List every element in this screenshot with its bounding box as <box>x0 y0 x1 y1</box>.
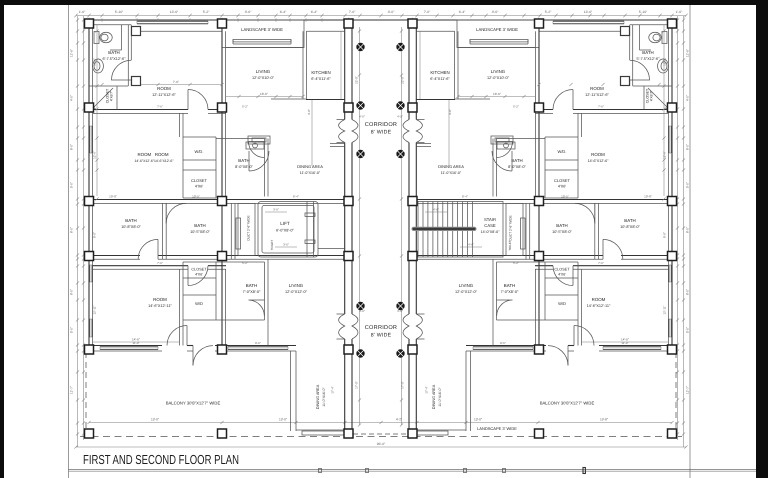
svg-text:12'-11": 12'-11" <box>93 305 97 314</box>
dining box dim rotated left <box>331 386 335 393</box>
svg-text:CLOSET: CLOSET <box>191 178 208 183</box>
svg-text:STAIR: STAIR <box>484 217 496 222</box>
svg-text:6'-4": 6'-4" <box>462 195 468 199</box>
svg-text:6'-4": 6'-4" <box>280 10 287 14</box>
svg-text:6'-4": 6'-4" <box>293 195 299 199</box>
svg-text:4'-6": 4'-6" <box>468 243 474 247</box>
room top-left label <box>152 86 176 97</box>
bath8 upper-right vanity <box>497 142 515 149</box>
svg-text:17'-4": 17'-4" <box>425 386 429 393</box>
svg-text:CLOSET: CLOSET <box>554 178 571 183</box>
corridor inner dim line left <box>359 27 361 425</box>
svg-text:10'-8"X8'-0": 10'-8"X8'-0" <box>620 225 640 229</box>
window top-left room <box>137 21 208 23</box>
sink top-right bath <box>658 59 669 73</box>
svg-text:18'-6": 18'-6" <box>493 92 501 96</box>
svg-text:5'-2": 5'-2" <box>242 105 248 109</box>
svg-text:8'-0": 8'-0" <box>93 232 97 238</box>
svg-text:8'-0": 8'-0" <box>663 232 667 238</box>
window left wall lower room a <box>90 265 92 282</box>
window bottom right living <box>473 347 533 350</box>
corridor bottom dashed <box>353 433 408 435</box>
svg-text:7'-0": 7'-0" <box>349 10 356 14</box>
living lower-left label <box>285 283 308 294</box>
svg-text:5'-0": 5'-0" <box>70 327 74 333</box>
svg-text:W/D.: W/D. <box>558 149 567 154</box>
wd closet stack lower-left box <box>183 262 216 320</box>
svg-text:5'-0": 5'-0" <box>686 182 690 188</box>
svg-text:LIVING: LIVING <box>491 69 506 74</box>
bath top-left bottom wall <box>89 85 128 87</box>
svg-text:BATH: BATH <box>194 223 205 228</box>
closet lower-right label <box>554 268 570 277</box>
svg-text:13'-0": 13'-0" <box>474 417 482 421</box>
svg-text:3'-0": 3'-0" <box>283 243 289 247</box>
room side dim text right <box>663 232 667 315</box>
sheet divider tick 2 <box>366 469 369 473</box>
svg-text:14'-6"X12'-11": 14'-6"X12'-11" <box>587 304 611 308</box>
window right wall lower room a <box>669 265 671 282</box>
corridor dim ticks <box>358 29 403 426</box>
svg-text:12'-0"X12'-0": 12'-0"X12'-0" <box>455 290 478 294</box>
svg-text:13'-6": 13'-6" <box>584 10 593 14</box>
room interior dim ticks top-left <box>100 83 223 86</box>
svg-text:11'-0": 11'-0" <box>621 341 628 345</box>
left dimension line outer <box>77 16 79 447</box>
balcony small dim text right <box>500 341 628 345</box>
svg-text:12'-7": 12'-7" <box>70 386 74 394</box>
room2 label upper-right <box>588 152 609 163</box>
svg-text:12'-0"X10'-0": 12'-0"X10'-0" <box>487 76 510 80</box>
hall dim line right <box>448 99 452 166</box>
svg-text:ROOM: ROOM <box>592 297 606 302</box>
room lower-left east wall <box>180 269 184 345</box>
svg-text:W/D: W/D <box>195 301 203 306</box>
svg-text:BATH: BATH <box>125 218 136 223</box>
svg-text:17'-0": 17'-0" <box>401 381 405 389</box>
bottom wall left unit <box>89 346 296 352</box>
svg-text:4'X6': 4'X6' <box>558 273 566 277</box>
svg-text:14'-0"X8'-0": 14'-0"X8'-0" <box>481 230 500 234</box>
kitchen bottom wall right <box>416 48 535 100</box>
svg-text:17'-0": 17'-0" <box>355 381 359 389</box>
room2 east wall upper-right <box>578 113 582 137</box>
stair dim marks <box>425 208 482 248</box>
bath top-right west wall <box>630 25 651 86</box>
right outer wall <box>668 20 672 351</box>
wd closet stack lower-right box <box>545 262 578 320</box>
svg-text:11'-0": 11'-0" <box>132 341 139 345</box>
bath8 upper-left walls <box>216 139 268 197</box>
corridor dim rotated text lower <box>355 381 405 389</box>
svg-text:LANDSCAPE 3' WIDE: LANDSCAPE 3' WIDE <box>241 27 283 32</box>
landscape planter band top-right <box>470 40 528 45</box>
landscape label top-left <box>241 27 283 32</box>
dining label right <box>438 164 464 175</box>
bath2 left entry door arc <box>166 203 186 223</box>
room2 east wall upper-left <box>180 113 184 137</box>
frame line right <box>689 5 691 478</box>
sheet divider tick 3 <box>464 469 467 473</box>
balcony label right <box>540 401 595 406</box>
interior dim line left rooms <box>96 25 98 196</box>
room lower-right west wall <box>578 269 582 345</box>
svg-text:8'-0": 8'-0" <box>686 289 690 295</box>
svg-text:5'-2": 5'-2" <box>513 105 519 109</box>
room top-right label <box>585 86 609 97</box>
svg-text:8'-0"X8'-0": 8'-0"X8'-0" <box>508 165 526 169</box>
svg-text:19'-8": 19'-8" <box>600 417 608 421</box>
wd closet stack upper-left box <box>183 137 216 198</box>
svg-text:BATH: BATH <box>504 283 515 288</box>
svg-text:12'-7": 12'-7" <box>686 386 690 394</box>
window bottom left living <box>228 347 288 350</box>
balcony label left <box>166 401 221 406</box>
svg-text:10'-5": 10'-5" <box>192 195 200 199</box>
svg-text:18'-6": 18'-6" <box>260 92 268 96</box>
pilaster squares top-right room <box>621 27 630 86</box>
corridor lower door left <box>337 314 359 339</box>
svg-text:DINING AREA: DINING AREA <box>438 164 464 169</box>
lower room door arc left <box>188 266 208 286</box>
bath row top wall right <box>416 200 677 204</box>
stair label <box>481 217 500 234</box>
svg-text:12'-6": 12'-6" <box>93 58 97 66</box>
kitchen bottom wall left <box>226 48 345 100</box>
svg-text:8' WIDE: 8' WIDE <box>371 333 392 339</box>
wall room/living divider right lower <box>535 204 539 346</box>
svg-text:5'-0": 5'-0" <box>70 182 74 188</box>
svg-text:7'-6": 7'-6" <box>157 261 163 265</box>
svg-text:12'-11"X12'-6": 12'-11"X12'-6" <box>152 93 176 97</box>
left outer wall <box>89 20 93 351</box>
wd upper-right label <box>558 149 567 154</box>
closet top-right walls <box>644 86 672 110</box>
lift shaft box <box>258 202 318 258</box>
lower divider wall left <box>93 266 226 270</box>
svg-text:BATH: BATH <box>511 158 522 163</box>
room side dim text left <box>93 232 97 315</box>
balcony edge dashed bottom <box>80 436 682 438</box>
room2 double label upper-left <box>134 152 174 163</box>
svg-text:7'-6": 7'-6" <box>173 80 179 84</box>
svg-text:BALCONY 30'8"X12'7" WIDE: BALCONY 30'8"X12'7" WIDE <box>166 401 221 406</box>
svg-text:12'-11": 12'-11" <box>663 305 667 314</box>
landscape planter bottom right <box>417 431 448 435</box>
top wall inner line right bath <box>630 24 672 26</box>
lower hall dim texts <box>157 261 604 265</box>
interior dim ticks rooms <box>95 29 665 200</box>
toilet top-left <box>94 32 112 44</box>
window right wall upper room <box>669 126 671 153</box>
svg-text:8'-6": 8'-6" <box>255 341 261 345</box>
closet upper-right label <box>554 178 571 189</box>
window right wall lower room b <box>669 319 671 337</box>
round columns in corridor <box>356 43 404 358</box>
svg-text:6'-4"X11'-6": 6'-4"X11'-6" <box>311 77 331 81</box>
stair treads <box>423 202 473 258</box>
living interior dim ticks left <box>237 95 304 98</box>
column tick stubs top <box>89 18 672 20</box>
lower room door arc right <box>553 266 573 286</box>
black bar left edge <box>0 0 4 478</box>
kitchen label left <box>311 70 331 81</box>
svg-text:3'-0": 3'-0" <box>273 208 279 212</box>
room interior dim ticks top-right <box>537 83 660 86</box>
bath lower-left door arc <box>249 300 265 316</box>
dining box dim rotated right <box>425 386 429 393</box>
svg-text:12'-11"X12'-6": 12'-11"X12'-6" <box>585 93 609 97</box>
sheet divider heavy tick <box>583 468 585 474</box>
wd lower-right label <box>558 301 566 306</box>
svg-text:12'-6": 12'-6" <box>70 49 74 57</box>
room top-right door arc <box>553 90 573 110</box>
dining counter left <box>248 136 270 144</box>
dining counter right <box>491 136 513 144</box>
svg-text:KITCHEN: KITCHEN <box>311 70 330 75</box>
balcony edge dashed left <box>85 352 87 434</box>
duct shaft right <box>506 203 525 255</box>
bath lower-left label <box>243 283 261 294</box>
svg-text:11'-0"X16'-0": 11'-0"X16'-0" <box>441 171 462 175</box>
svg-text:10'-8": 10'-8" <box>644 195 652 199</box>
bath1 left label <box>121 218 141 229</box>
left dimension ticks <box>76 18 85 435</box>
left dimension rotated texts <box>70 49 74 394</box>
svg-text:7'-0"X8'-0": 7'-0"X8'-0" <box>501 290 519 294</box>
svg-text:7'-6": 7'-6" <box>598 105 604 109</box>
svg-text:12'-6": 12'-6" <box>686 49 690 57</box>
svg-text:4'-0": 4'-0" <box>686 95 690 101</box>
bath row top wall left <box>85 200 345 204</box>
bath divider wall right <box>595 203 599 259</box>
dining door jamb wall right <box>416 144 431 147</box>
bottom dimension line <box>74 445 687 448</box>
balcony door arc left room <box>167 326 187 346</box>
balcony door arc right living <box>548 346 568 366</box>
svg-text:8'-0": 8'-0" <box>70 227 74 233</box>
svg-text:6'-4": 6'-4" <box>459 10 466 14</box>
svg-text:4'X6': 4'X6' <box>195 273 203 277</box>
svg-text:8'-0": 8'-0" <box>70 289 74 295</box>
balcony small dim text left <box>132 341 260 345</box>
svg-text:11'-0"X16'-0": 11'-0"X16'-0" <box>322 387 326 407</box>
svg-text:6'-7.5"X12'-6": 6'-7.5"X12'-6" <box>103 57 127 61</box>
svg-text:13'-0": 13'-0" <box>151 417 159 421</box>
svg-text:7'-0": 7'-0" <box>424 10 431 14</box>
closet upper-left label <box>191 178 208 189</box>
svg-text:CORRIDOR: CORRIDOR <box>365 325 397 331</box>
bath top-right bottom wall <box>633 85 672 87</box>
room divider wall right unit <box>535 110 668 114</box>
lift dim marks <box>265 208 297 248</box>
lift lobby wall <box>318 248 345 250</box>
window left wall lower room b <box>90 319 92 337</box>
bath top-left label <box>103 50 127 61</box>
toilet top-right <box>649 32 667 44</box>
room dim rotated text left <box>93 58 97 159</box>
kitchen dim line right <box>419 31 421 99</box>
corridor lower door right <box>403 314 425 339</box>
closet top-right label <box>646 88 654 103</box>
svg-text:LIVING: LIVING <box>256 69 271 74</box>
svg-text:ROOM ROOM: ROOM ROOM <box>138 152 169 157</box>
svg-text:5'-7.5"X12'-6": 5'-7.5"X12'-6" <box>637 57 661 61</box>
stair handrail <box>412 227 477 231</box>
svg-text:14'-6"X12'-6": 14'-6"X12'-6" <box>588 159 609 163</box>
bath lower-right walls <box>493 259 545 345</box>
window left wall upper room <box>90 126 92 153</box>
svg-text:CORRIDOR: CORRIDOR <box>365 122 397 128</box>
duct shaft left <box>236 203 255 255</box>
sheet divider tick 4 <box>503 469 506 473</box>
svg-text:KITCHEN: KITCHEN <box>430 70 449 75</box>
svg-text:13'-6": 13'-6" <box>170 10 179 14</box>
dining counter door arc right <box>492 151 512 171</box>
bath lower-right door arc <box>497 300 513 316</box>
top wall inner line right room <box>539 30 624 32</box>
svg-text:4'X6'7": 4'X6'7" <box>650 90 654 101</box>
svg-text:BATH: BATH <box>624 218 635 223</box>
wall room/living divider left lower <box>222 204 226 346</box>
svg-text:13'-0": 13'-0" <box>279 417 287 421</box>
svg-text:12'-0"X10'-0": 12'-0"X10'-0" <box>252 76 275 80</box>
svg-text:96'-0": 96'-0" <box>377 442 386 446</box>
stair box <box>418 202 503 258</box>
top outer wall <box>85 19 677 21</box>
svg-text:22'-0": 22'-0" <box>355 76 359 84</box>
svg-text:DUCT 2'-6" WIDE: DUCT 2'-6" WIDE <box>247 215 251 240</box>
bath lower-right label <box>501 283 519 294</box>
svg-text:LANDSCAPE 3' WIDE: LANDSCAPE 3' WIDE <box>477 426 517 431</box>
sheet divider line bottom <box>69 470 757 472</box>
wd closet stack upper-right box <box>545 137 578 198</box>
svg-text:FIRST AND SECOND FLOOR PLAN: FIRST AND SECOND FLOOR PLAN <box>83 452 239 467</box>
corridor left wall <box>345 25 352 430</box>
svg-text:8'-0": 8'-0" <box>686 144 690 150</box>
lift label <box>276 221 294 233</box>
svg-text:TOILET: TOILET <box>508 240 512 251</box>
bath2 east wall left <box>231 203 235 259</box>
bath row dim texts left <box>109 195 299 199</box>
svg-text:LIVING: LIVING <box>459 283 474 288</box>
svg-text:ROOM: ROOM <box>153 297 167 302</box>
dining door jamb wall left <box>330 144 345 147</box>
bath8 upper-left door arc <box>249 142 265 158</box>
svg-text:5'-2": 5'-2" <box>242 261 248 265</box>
svg-text:BATH: BATH <box>108 50 119 55</box>
top dimension texts <box>79 10 683 14</box>
svg-text:6'-0"X8'-0": 6'-0"X8'-0" <box>276 229 294 233</box>
bath1 right door arc <box>603 239 623 259</box>
svg-text:6'-4": 6'-4" <box>311 10 318 14</box>
living label left <box>252 69 275 80</box>
svg-text:5'-10": 5'-10" <box>115 10 124 14</box>
bath row bottom wall right <box>416 256 677 260</box>
black bar top edge <box>0 0 768 5</box>
svg-text:LIVING: LIVING <box>289 283 304 288</box>
svg-text:ROOM: ROOM <box>157 86 171 91</box>
bath2 west wall right <box>526 203 530 259</box>
svg-text:TOILET: TOILET <box>270 240 274 251</box>
svg-text:4'-0": 4'-0" <box>397 115 403 119</box>
svg-text:LANDSCAPE 3' WIDE: LANDSCAPE 3' WIDE <box>476 27 518 32</box>
svg-text:8'-0": 8'-0" <box>686 227 690 233</box>
dining area label below right <box>432 384 442 409</box>
title text FIRST AND SECOND FLOOR PLAN <box>83 452 239 467</box>
left dimension line inner <box>83 16 85 440</box>
kitchen west wall left <box>303 31 345 99</box>
balcony door arc right room <box>574 326 594 346</box>
svg-text:DINING AREA: DINING AREA <box>297 164 323 169</box>
landscape planter band top-left <box>233 40 291 45</box>
kitchen dim line left <box>340 31 342 99</box>
corridor small dim texts <box>359 115 403 314</box>
svg-text:12'-6": 12'-6" <box>93 151 97 159</box>
frame line left <box>68 5 70 478</box>
svg-text:ROOM: ROOM <box>590 86 604 91</box>
room lower-right dim <box>582 338 668 343</box>
svg-text:BATH: BATH <box>238 158 249 163</box>
corridor upper door left <box>337 120 359 143</box>
top wall inner line left bath <box>89 24 131 26</box>
svg-text:7'-0"X8'-0": 7'-0"X8'-0" <box>243 290 261 294</box>
svg-text:4'X6': 4'X6' <box>195 185 203 189</box>
svg-text:CLOSET: CLOSET <box>191 268 207 272</box>
corridor right wall <box>409 25 416 430</box>
closet top-left door diagonal <box>93 88 113 108</box>
window top-right room <box>553 21 624 23</box>
kitchen west wall right <box>416 31 458 99</box>
balcony dimension line <box>89 422 672 424</box>
living lower-right label <box>455 283 478 294</box>
svg-text:8'-0": 8'-0" <box>70 144 74 150</box>
room divider wall left unit <box>93 110 226 114</box>
corridor dim rotated text upper <box>355 76 405 84</box>
landscape label top-right <box>476 27 518 32</box>
svg-text:8'-6": 8'-6" <box>245 10 252 14</box>
svg-text:1'-6": 1'-6" <box>79 10 86 14</box>
landscape box top-right <box>457 20 539 48</box>
balcony dimension ticks <box>87 421 673 424</box>
svg-text:11'-0"X16'-0": 11'-0"X16'-0" <box>438 387 442 407</box>
sink top-left bath <box>93 59 104 73</box>
toilet nook label left <box>270 240 274 251</box>
svg-text:4'-0": 4'-0" <box>448 109 452 115</box>
svg-text:DUCT 2'-6" WIDE: DUCT 2'-6" WIDE <box>509 215 513 240</box>
lift inner door lines <box>305 202 315 258</box>
svg-text:BALCONY 30'8"X12'7" WIDE: BALCONY 30'8"X12'7" WIDE <box>540 401 595 406</box>
svg-text:DINING AREA: DINING AREA <box>432 384 436 409</box>
closet top-right door diagonal <box>648 88 668 108</box>
room lower-left label <box>148 297 172 308</box>
wd lower-left label <box>195 301 203 306</box>
right dimension ticks <box>676 18 685 435</box>
bath2 left label <box>190 223 210 234</box>
svg-text:4'-6": 4'-6" <box>433 208 439 212</box>
kitchen label right <box>430 70 450 81</box>
bath top-right label <box>637 50 661 61</box>
svg-text:4'X6'7": 4'X6'7" <box>110 90 114 101</box>
corridor inner dim line right <box>401 27 403 425</box>
svg-text:4'-0": 4'-0" <box>70 95 74 101</box>
wall room/living divider left <box>222 20 226 197</box>
svg-text:10'-5"X8'-0": 10'-5"X8'-0" <box>552 230 572 234</box>
pilaster squares top-left room <box>132 27 141 86</box>
black bar right edge <box>756 0 768 478</box>
room dim rotated text right <box>663 58 667 159</box>
corridor label lower <box>365 325 397 339</box>
